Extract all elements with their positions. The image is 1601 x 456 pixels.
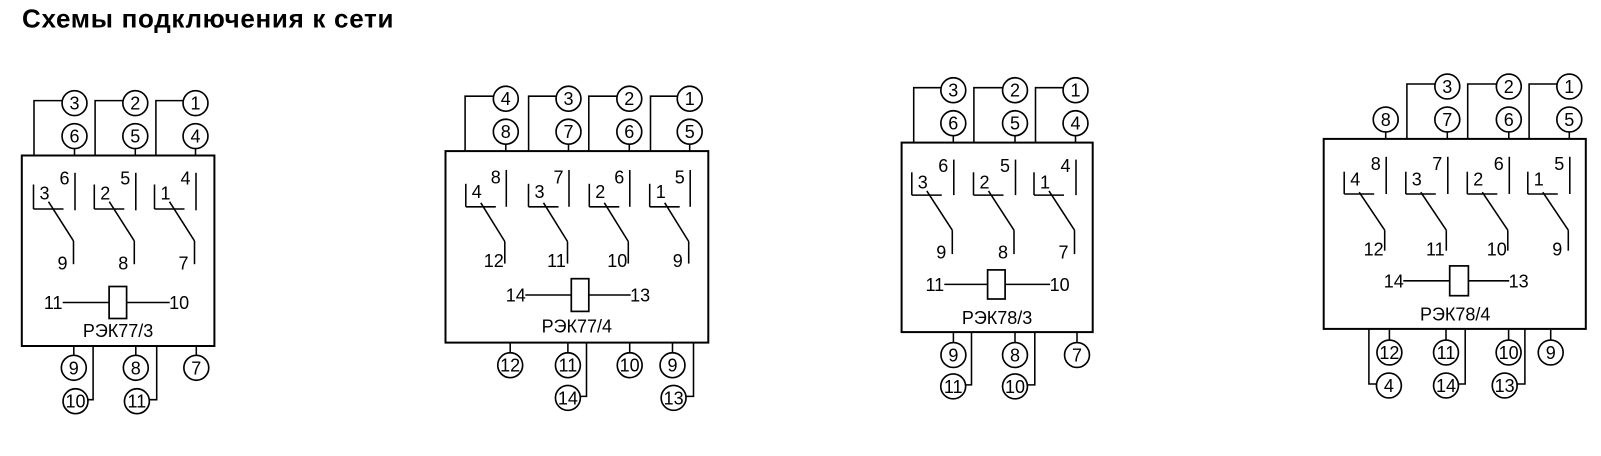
svg-text:10: 10 bbox=[1499, 343, 1519, 363]
svg-text:5: 5 bbox=[1010, 114, 1020, 134]
svg-text:12: 12 bbox=[484, 251, 504, 271]
svg-text:14: 14 bbox=[506, 286, 526, 306]
svg-text:9: 9 bbox=[1552, 239, 1562, 259]
svg-text:2: 2 bbox=[130, 94, 140, 114]
svg-text:12: 12 bbox=[1379, 343, 1399, 363]
svg-text:3: 3 bbox=[39, 184, 49, 204]
svg-text:6: 6 bbox=[948, 114, 958, 134]
svg-text:РЭК77/4: РЭК77/4 bbox=[542, 317, 612, 337]
svg-text:7: 7 bbox=[178, 254, 188, 274]
svg-text:1: 1 bbox=[1040, 172, 1050, 192]
svg-text:РЭК78/3: РЭК78/3 bbox=[962, 308, 1032, 328]
svg-text:5: 5 bbox=[1000, 156, 1010, 176]
svg-text:13: 13 bbox=[1495, 376, 1515, 396]
svg-text:3: 3 bbox=[948, 81, 958, 101]
svg-text:4: 4 bbox=[472, 182, 482, 202]
svg-text:1: 1 bbox=[656, 182, 666, 202]
svg-text:7: 7 bbox=[563, 122, 573, 142]
svg-text:10: 10 bbox=[1005, 377, 1025, 397]
svg-text:2: 2 bbox=[1504, 77, 1514, 97]
svg-text:6: 6 bbox=[69, 127, 79, 147]
svg-text:1: 1 bbox=[190, 94, 200, 114]
svg-text:3: 3 bbox=[1442, 77, 1452, 97]
svg-text:13: 13 bbox=[630, 286, 650, 306]
svg-text:9: 9 bbox=[1546, 343, 1556, 363]
svg-text:5: 5 bbox=[130, 127, 140, 147]
svg-text:14: 14 bbox=[1436, 376, 1456, 396]
svg-text:2: 2 bbox=[1473, 170, 1483, 190]
svg-text:5: 5 bbox=[675, 168, 685, 188]
svg-text:1: 1 bbox=[160, 184, 170, 204]
svg-text:8: 8 bbox=[1381, 110, 1391, 130]
svg-text:6: 6 bbox=[614, 168, 624, 188]
svg-text:10: 10 bbox=[607, 251, 627, 271]
svg-text:13: 13 bbox=[664, 388, 684, 408]
svg-text:11: 11 bbox=[559, 356, 578, 376]
svg-text:6: 6 bbox=[1494, 154, 1504, 174]
svg-text:1: 1 bbox=[1564, 77, 1574, 97]
svg-text:3: 3 bbox=[1412, 170, 1422, 190]
svg-text:12: 12 bbox=[500, 356, 520, 376]
svg-text:3: 3 bbox=[563, 89, 573, 109]
svg-text:7: 7 bbox=[191, 358, 201, 378]
svg-text:10: 10 bbox=[1050, 275, 1070, 295]
svg-text:7: 7 bbox=[553, 168, 563, 188]
svg-text:8: 8 bbox=[998, 243, 1008, 263]
svg-text:1: 1 bbox=[1070, 81, 1080, 101]
svg-text:1: 1 bbox=[1534, 170, 1544, 190]
svg-text:10: 10 bbox=[169, 293, 189, 313]
svg-text:2: 2 bbox=[595, 182, 605, 202]
svg-text:2: 2 bbox=[624, 89, 634, 109]
svg-text:10: 10 bbox=[620, 356, 640, 376]
svg-text:4: 4 bbox=[190, 127, 200, 147]
svg-text:11: 11 bbox=[128, 392, 147, 412]
svg-text:9: 9 bbox=[57, 254, 67, 274]
svg-text:5: 5 bbox=[1554, 154, 1564, 174]
svg-text:13: 13 bbox=[1509, 271, 1529, 291]
svg-text:11: 11 bbox=[1437, 343, 1456, 363]
svg-text:8: 8 bbox=[1010, 346, 1020, 366]
svg-text:10: 10 bbox=[65, 392, 85, 412]
svg-text:8: 8 bbox=[131, 358, 141, 378]
svg-text:6: 6 bbox=[1504, 110, 1514, 130]
svg-text:3: 3 bbox=[918, 172, 928, 192]
svg-text:9: 9 bbox=[948, 346, 958, 366]
svg-text:8: 8 bbox=[501, 122, 511, 142]
svg-text:РЭК77/3: РЭК77/3 bbox=[83, 321, 153, 341]
svg-text:6: 6 bbox=[59, 169, 69, 189]
svg-text:9: 9 bbox=[69, 358, 79, 378]
svg-text:8: 8 bbox=[118, 254, 128, 274]
svg-text:11: 11 bbox=[44, 293, 63, 313]
svg-text:14: 14 bbox=[1384, 271, 1404, 291]
svg-text:11: 11 bbox=[547, 251, 566, 271]
svg-text:5: 5 bbox=[685, 122, 695, 142]
svg-text:7: 7 bbox=[1058, 243, 1068, 263]
svg-text:4: 4 bbox=[1060, 156, 1070, 176]
svg-text:4: 4 bbox=[1070, 114, 1080, 134]
svg-text:12: 12 bbox=[1364, 239, 1384, 259]
svg-text:11: 11 bbox=[944, 377, 963, 397]
svg-text:8: 8 bbox=[1371, 154, 1381, 174]
svg-text:2: 2 bbox=[100, 184, 110, 204]
svg-text:6: 6 bbox=[624, 122, 634, 142]
svg-text:5: 5 bbox=[1564, 110, 1574, 130]
svg-text:4: 4 bbox=[1384, 376, 1394, 396]
svg-text:14: 14 bbox=[558, 388, 578, 408]
svg-text:9: 9 bbox=[936, 243, 946, 263]
svg-text:3: 3 bbox=[534, 182, 544, 202]
svg-text:4: 4 bbox=[1350, 170, 1360, 190]
svg-text:4: 4 bbox=[501, 89, 511, 109]
svg-text:7: 7 bbox=[1442, 110, 1452, 130]
svg-text:9: 9 bbox=[667, 356, 677, 376]
svg-text:2: 2 bbox=[1010, 81, 1020, 101]
svg-text:Схемы подключения к сети: Схемы подключения к сети bbox=[22, 3, 394, 33]
svg-text:6: 6 bbox=[938, 156, 948, 176]
svg-text:7: 7 bbox=[1432, 154, 1442, 174]
svg-text:4: 4 bbox=[180, 169, 190, 189]
svg-text:7: 7 bbox=[1072, 346, 1082, 366]
svg-text:11: 11 bbox=[925, 275, 944, 295]
svg-text:2: 2 bbox=[979, 172, 989, 192]
svg-text:9: 9 bbox=[673, 251, 683, 271]
svg-text:1: 1 bbox=[685, 89, 695, 109]
svg-text:5: 5 bbox=[120, 169, 130, 189]
svg-text:РЭК78/4: РЭК78/4 bbox=[1420, 304, 1490, 324]
svg-text:3: 3 bbox=[69, 94, 79, 114]
svg-text:11: 11 bbox=[1426, 239, 1445, 259]
svg-text:10: 10 bbox=[1487, 239, 1507, 259]
svg-text:8: 8 bbox=[491, 168, 501, 188]
